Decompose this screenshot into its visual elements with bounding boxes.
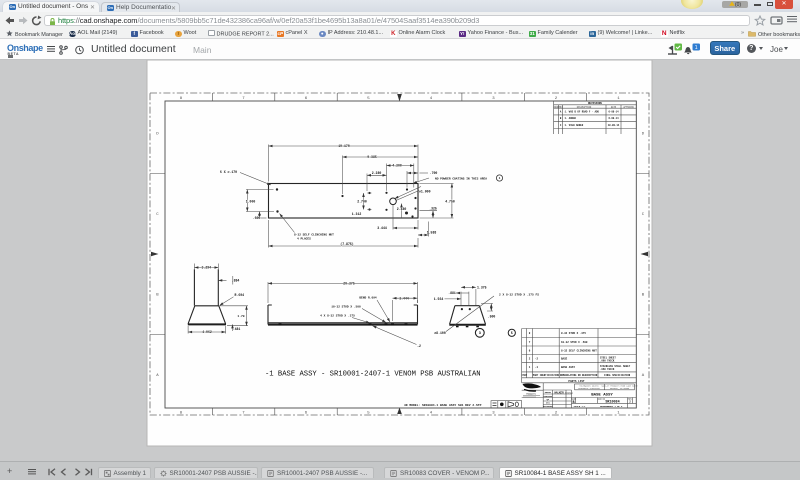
dim 4.750 (vertical, right) xyxy=(420,184,454,219)
Onshape logo xyxy=(7,43,43,53)
svg-text:9.385: 9.385 xyxy=(367,155,377,159)
svg-text:.481: .481 xyxy=(233,327,241,331)
svg-text:OTHERWISE SPECIFIED: OTHERWISE SPECIFIED xyxy=(578,387,600,390)
dim 1.375 xyxy=(461,286,476,288)
centering mark top xyxy=(397,94,402,102)
svg-text:3.444: 3.444 xyxy=(377,226,387,230)
trapezoid base outline xyxy=(188,306,226,324)
upload/person icon with green badge xyxy=(667,43,683,55)
channel profile: bottom plate xyxy=(268,322,418,324)
svg-text:2 X 8-32 STUD X .375 FS: 2 X 8-32 STUD X .375 FS xyxy=(499,293,539,296)
svg-text:8-32 SELF CLINCHING NUT: 8-32 SELF CLINCHING NUT xyxy=(294,234,334,237)
revision table xyxy=(554,101,637,134)
dim 3.444 (right) xyxy=(393,300,418,321)
svg-text:10-08-14: 10-08-14 xyxy=(608,124,620,127)
zone boundary ticks left xyxy=(150,174,165,335)
svg-text:PART IDENTIFICATION: PART IDENTIFICATION xyxy=(533,374,560,377)
svg-text:FINAL SPECIFICATION: FINAL SPECIFICATION xyxy=(604,374,631,377)
centering mark right xyxy=(641,252,649,257)
svg-text:SHEET 1 OF 2: SHEET 1 OF 2 xyxy=(607,405,623,408)
outer dash-dot border frame xyxy=(150,93,649,415)
svg-text:4.062: 4.062 xyxy=(202,330,212,334)
dim 9.385 xyxy=(342,156,344,195)
svg-text:1.564: 1.564 xyxy=(434,297,444,301)
upright wall edges xyxy=(194,269,218,305)
svg-text:2.480: 2.480 xyxy=(397,207,407,211)
zone boundary ticks top xyxy=(212,93,586,101)
svg-text:8-32 STUD X .375: 8-32 STUD X .375 xyxy=(561,332,586,335)
svg-text:7/8/14: 7/8/14 xyxy=(565,391,574,394)
svg-text:2.280: 2.280 xyxy=(372,171,382,175)
svg-text:6 X ⌀.170: 6 X ⌀.170 xyxy=(220,170,237,174)
svg-text:20.375: 20.375 xyxy=(343,282,355,286)
svg-text:APPROVED: APPROVED xyxy=(623,106,634,109)
svg-text:REV: REV xyxy=(559,106,564,109)
history/clock icon xyxy=(75,45,84,55)
inner solid border frame xyxy=(165,101,636,408)
svg-text:BEND R.094: BEND R.094 xyxy=(359,297,377,300)
svg-text:4.300: 4.300 xyxy=(392,164,402,168)
svg-text:4 PLACES: 4 PLACES xyxy=(297,237,311,240)
version/branch icon xyxy=(59,45,68,55)
svg-text:WALKER: WALKER xyxy=(554,392,564,395)
document title xyxy=(91,43,176,55)
svg-text:DESCRIPTION: DESCRIPTION xyxy=(577,106,592,109)
svg-text:APPROVED: APPROVED xyxy=(543,405,553,408)
svg-text:1: 1 xyxy=(499,177,501,180)
base plate outline xyxy=(269,184,419,219)
dim .600 (vertical, left) xyxy=(255,217,267,219)
dim .700 xyxy=(406,171,408,188)
svg-text:R.694: R.694 xyxy=(235,293,245,297)
dim 2.480 (vertical) xyxy=(401,204,403,219)
stud holes xyxy=(461,308,463,310)
dim 1.564 xyxy=(445,298,462,300)
zone boundary ticks right xyxy=(636,174,649,335)
dim (7.875) xyxy=(269,220,419,248)
gray badge button xyxy=(722,1,748,9)
active tab xyxy=(3,2,99,13)
dim 1.060 (vertical, left) xyxy=(246,190,274,212)
holes xyxy=(276,188,278,190)
svg-text:8-32 SELF CLINCHING NUT: 8-32 SELF CLINCHING NUT xyxy=(561,349,597,352)
svg-text:⌀8.100: ⌀8.100 xyxy=(434,331,446,335)
svg-text:.600: .600 xyxy=(253,216,261,220)
svg-text:1.060: 1.060 xyxy=(246,199,256,203)
svg-text:4 X 8-32 STUD X .375: 4 X 8-32 STUD X .375 xyxy=(320,315,355,318)
svg-text:.325: .325 xyxy=(429,206,437,210)
svg-text:3: 3 xyxy=(479,332,481,336)
centering mark bottom xyxy=(397,408,402,415)
svg-text:FAIRFAX, VA 99999: FAIRFAX, VA 99999 xyxy=(610,387,629,390)
svg-text:-2: -2 xyxy=(535,358,539,361)
sheet paper xyxy=(147,60,652,446)
dim 1.70 (vertical, right) xyxy=(220,306,248,326)
dim .884 xyxy=(218,279,226,281)
balloon 1 xyxy=(496,175,502,181)
dim 3.444 xyxy=(393,205,418,230)
svg-text:.700: .700 xyxy=(430,171,438,175)
svg-text:1. ADDED: 1. ADDED xyxy=(565,117,577,120)
large hole (1.000 dia) xyxy=(390,198,397,205)
thick bottom edge xyxy=(188,323,226,325)
svg-text:3.294: 3.294 xyxy=(202,266,212,270)
studs on bottom xyxy=(279,323,282,325)
dim 3.294 xyxy=(194,267,218,269)
svg-text:DATE: DATE xyxy=(611,106,617,109)
svg-text:SCALE 1:1: SCALE 1:1 xyxy=(574,405,587,408)
svg-text:1.70: 1.70 xyxy=(237,315,244,318)
svg-text:NO POWDER COATING IN THIS AREA: NO POWDER COATING IN THIS AREA xyxy=(435,177,487,180)
user menu xyxy=(770,45,783,54)
svg-text:3.444: 3.444 xyxy=(399,296,409,300)
Share button xyxy=(710,41,741,55)
svg-text:PRODUCTS: PRODUCTS xyxy=(526,393,536,396)
svg-text:PARTS LIST: PARTS LIST xyxy=(568,380,585,383)
dim 1.588 xyxy=(428,222,430,237)
dim 4.300 xyxy=(387,164,414,191)
thick bottom edge xyxy=(449,324,486,326)
svg-text:5: 5 xyxy=(511,332,513,336)
right lip xyxy=(414,305,418,325)
svg-text:-2: -2 xyxy=(417,344,421,348)
centering mark left xyxy=(151,252,159,257)
svg-text:10.170: 10.170 xyxy=(338,144,350,148)
zone boundary ticks bottom xyxy=(212,408,586,415)
svg-text:BASE ASSY: BASE ASSY xyxy=(561,366,575,369)
dim .481 xyxy=(232,324,234,331)
svg-text:1. VIEW ADDED: 1. VIEW ADDED xyxy=(565,124,584,127)
notification bell with blue badge xyxy=(682,43,702,55)
svg-text:DRAWN: DRAWN xyxy=(545,391,552,394)
svg-text:.500: .500 xyxy=(488,315,496,319)
svg-text:6-08-14: 6-08-14 xyxy=(608,110,619,113)
dim 2.280 xyxy=(366,174,368,192)
help menu xyxy=(747,44,757,54)
balloon -3 xyxy=(475,328,484,337)
svg-text:3D MODEL: SR10084-1 BASE ASSY: 3D MODEL: SR10084-1 BASE ASSY SH1 REV 2.… xyxy=(404,404,482,407)
dim .500 (vertical right) xyxy=(481,304,493,312)
dim .881 xyxy=(456,292,469,294)
window controls xyxy=(754,4,761,6)
dim 2.700 (vertical) xyxy=(367,193,371,210)
left lip xyxy=(268,305,272,325)
studs below bottom xyxy=(456,326,459,328)
svg-text:2.700: 2.700 xyxy=(357,200,367,204)
svg-text:(7.875): (7.875) xyxy=(340,242,353,246)
svg-text:1.588: 1.588 xyxy=(427,230,437,234)
balloon -5 xyxy=(508,329,515,336)
svg-text:.060 THICK: .060 THICK xyxy=(600,359,615,362)
dim .325 (vertical, right) xyxy=(420,210,438,212)
svg-text:⌀1.000: ⌀1.000 xyxy=(419,189,431,193)
svg-text:ITEM: ITEM xyxy=(521,374,527,377)
svg-text:4.750: 4.750 xyxy=(445,199,455,203)
svg-text:1: 1 xyxy=(695,45,698,51)
inactive tab xyxy=(101,2,180,13)
dim 4.062 (bottom) xyxy=(188,326,226,334)
svg-text:6-09-14: 6-09-14 xyxy=(608,117,619,120)
hamburger menu icon xyxy=(47,46,55,47)
svg-text:-1: -1 xyxy=(535,366,539,369)
svg-text:10-32 STUD X .500: 10-32 STUD X .500 xyxy=(561,341,588,344)
svg-text:NOMENCLATURE OR DESCRIPTION: NOMENCLATURE OR DESCRIPTION xyxy=(560,374,598,377)
dim 20.375 xyxy=(268,282,418,303)
svg-text:.884: .884 xyxy=(232,279,240,283)
svg-text:1. WAS B OF ROAD F - ADD: 1. WAS B OF ROAD F - ADD xyxy=(565,110,600,113)
svg-text:.881: .881 xyxy=(448,291,456,295)
yellow avatar glow xyxy=(681,0,703,9)
svg-text:1.312: 1.312 xyxy=(352,212,362,216)
dim 10.170 xyxy=(269,145,419,182)
svg-text:.060 THICK: .060 THICK xyxy=(600,368,615,371)
svg-text:10-32 STUD X .500: 10-32 STUD X .500 xyxy=(331,306,361,309)
svg-text:-1 BASE ASSY - SR10001-2407-1: -1 BASE ASSY - SR10001-2407-1 VENOM PSB … xyxy=(265,371,481,379)
svg-text:1.375: 1.375 xyxy=(477,286,487,290)
svg-text:BASE: BASE xyxy=(561,358,568,361)
company logo blob xyxy=(523,383,542,388)
stud extension lines up xyxy=(461,289,476,306)
trapezoid outline xyxy=(450,306,486,325)
